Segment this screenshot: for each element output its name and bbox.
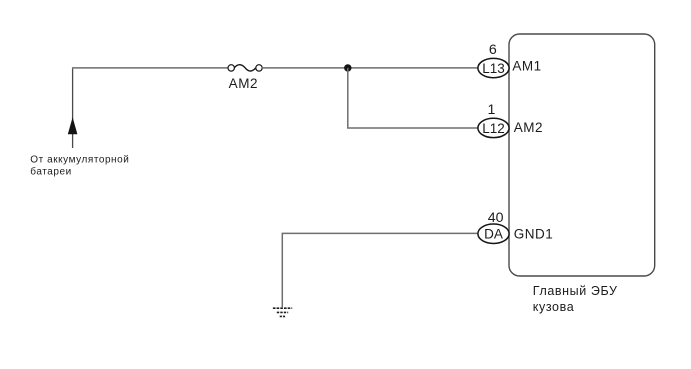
arrow from battery (points up) [68,117,78,134]
wire main horizontal: battery corner to fuse [72,67,228,69]
svg-text:L12: L12 [482,121,505,136]
pin connector oval L13 [478,58,509,77]
pin connector oval DA [478,224,509,243]
svg-text:DA: DA [484,227,503,242]
svg-text:AM1: AM1 [512,58,541,73]
wire battery riser vertical [72,68,74,148]
svg-text:GND1: GND1 [514,226,554,241]
svg-text:L13: L13 [482,61,505,76]
svg-text:1: 1 [488,102,496,118]
ECU box U1 (Главный ЭБУ кузова) [509,34,655,276]
wire junction drop to pin L12 [348,68,479,128]
ground [273,308,292,316]
svg-text:AM2: AM2 [229,76,259,91]
svg-text:кузова: кузова [533,300,574,314]
wire ground branch to pin DA [282,233,478,307]
svg-text:AM2: AM2 [514,120,543,135]
node junction dot [344,64,351,71]
pin connector oval L12 [478,118,509,137]
fuse AM2 [228,65,262,71]
svg-text:6: 6 [489,42,497,58]
svg-text:батареи: батареи [30,165,71,177]
svg-text:Главный ЭБУ: Главный ЭБУ [533,284,618,298]
svg-text:От аккумуляторной: От аккумуляторной [30,154,129,165]
wire fuse to pin L13 [262,67,478,69]
